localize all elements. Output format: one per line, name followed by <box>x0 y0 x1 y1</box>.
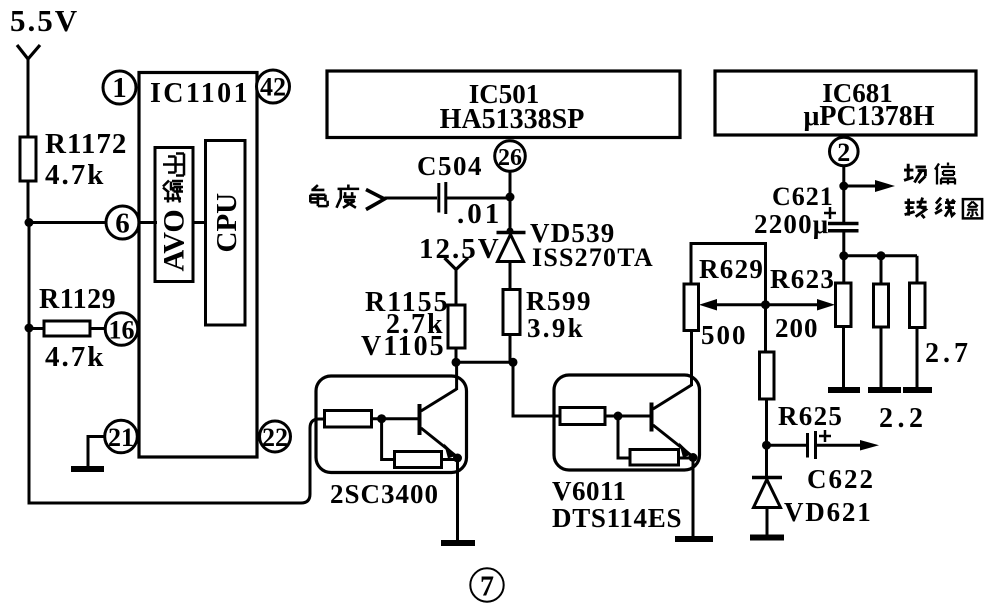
wire arrow to deflection coil <box>844 185 878 188</box>
ground pin21 <box>71 466 104 472</box>
svg-text:5.5V: 5.5V <box>10 3 79 38</box>
wire R599 down <box>509 335 512 363</box>
svg-text:C504: C504 <box>417 151 483 181</box>
resistor R625 <box>760 352 775 399</box>
resistor R1155 <box>448 305 465 348</box>
svg-text:4.7k: 4.7k <box>45 159 105 191</box>
arrowhead wiper R623 <box>817 299 835 311</box>
arrowhead deflection <box>875 180 895 192</box>
svg-text:HA51338SP: HA51338SP <box>440 104 585 135</box>
wire pin6 to AVO box <box>139 221 157 224</box>
svg-text:26: 26 <box>498 145 522 171</box>
node junction R623 top <box>839 251 848 260</box>
wire AVO box to CPU box <box>194 221 207 224</box>
svg-text:IC1101: IC1101 <box>150 78 250 109</box>
wire 2.7 top <box>916 256 919 283</box>
wire R1129 to pin16 <box>90 327 106 330</box>
wire rail down to R1129 junction <box>28 223 31 329</box>
svg-text:DTS114ES: DTS114ES <box>552 503 682 533</box>
wire Q2 resistor to base <box>605 415 650 418</box>
wire R625 down <box>765 399 768 478</box>
wire C621 down <box>842 231 845 256</box>
wire pin6 horizontal <box>29 221 106 224</box>
svg-text:2200μ: 2200μ <box>754 209 829 239</box>
pin 21 circle <box>105 420 138 453</box>
wire bottom run to transistor input <box>28 419 326 503</box>
arrowhead C622 <box>860 440 879 451</box>
node Q1 emitter junction <box>453 454 462 463</box>
svg-text:7: 7 <box>480 572 494 603</box>
svg-text:2: 2 <box>837 138 850 167</box>
svg-text:12.5V: 12.5V <box>419 233 501 265</box>
ground 2.7 <box>903 387 932 393</box>
polarity plus C621 <box>824 207 836 219</box>
wire junction bar R1155 R599 <box>456 361 513 364</box>
IC681 box <box>715 71 976 135</box>
resistor R599 <box>503 290 520 335</box>
wire C504 to junction <box>446 197 512 200</box>
wire to V6011 input <box>513 362 561 416</box>
node Q1 base junction <box>377 414 386 423</box>
svg-text:R623: R623 <box>770 264 835 294</box>
ground 2.2 <box>868 387 901 393</box>
wire Q2 collector up to R629 <box>690 330 693 386</box>
transistor Q1 symbol <box>420 389 457 459</box>
resistor R1172 <box>20 137 36 181</box>
svg-text:R629: R629 <box>699 254 764 284</box>
wire 12.5V to R1155 <box>455 269 458 305</box>
svg-text:R625: R625 <box>778 401 843 431</box>
pin 22 circle <box>260 421 291 452</box>
pin 2 circle <box>830 137 859 166</box>
wire Q1 emitter to ground <box>456 458 459 542</box>
IC501 box <box>327 71 680 138</box>
label changpian (field deflection) <box>904 163 955 185</box>
wire Q1 collector up <box>455 362 458 390</box>
svg-text:1: 1 <box>112 72 127 104</box>
resistor base input Q1 <box>325 411 372 428</box>
node junction 2.2 top <box>877 251 886 260</box>
node junction C504 pin26 <box>506 193 515 202</box>
resistor 2.7 <box>910 283 926 328</box>
wire 2.7 bottom <box>916 328 919 390</box>
wire Q1 BE resistor to emitter <box>442 458 459 461</box>
capacitor C621 <box>828 224 859 231</box>
power arrow 12.5V <box>445 258 469 270</box>
svg-text:2.2: 2.2 <box>879 403 928 434</box>
resistor base-emitter Q2 <box>630 450 679 466</box>
arrowhead wiper R629 <box>699 299 717 311</box>
wire sedu to C504 <box>385 197 438 200</box>
svg-text:22: 22 <box>262 423 288 452</box>
resistor R629 <box>684 284 699 331</box>
svg-text:ISS270TA: ISS270TA <box>532 243 654 272</box>
label AVO shuchu rotated <box>158 154 191 272</box>
capacitor C622 <box>808 431 816 459</box>
svg-text:C622: C622 <box>807 464 875 494</box>
label CPU rotated <box>211 193 243 253</box>
svg-text:200: 200 <box>775 313 819 343</box>
resistor R623 <box>836 283 852 327</box>
page number circle 7 <box>470 568 503 601</box>
wire 2.2 bottom <box>880 327 883 389</box>
wire junction down to VD539 <box>509 197 512 233</box>
node junction deflection <box>839 182 848 191</box>
svg-text:2SC3400: 2SC3400 <box>330 479 439 509</box>
wire pin26 down <box>509 171 512 198</box>
wire rail down to bottom <box>28 328 31 505</box>
power arrow 5.5V <box>17 45 40 59</box>
transistor Q2 symbol <box>652 385 693 458</box>
ground VD621 <box>750 535 784 541</box>
wire Q1 junction down to BE resistor <box>382 419 395 460</box>
svg-text:R1129: R1129 <box>39 284 116 315</box>
wire R1155 down <box>455 348 458 362</box>
wire wiper node down to R625 <box>764 305 767 352</box>
svg-text:6: 6 <box>115 208 130 240</box>
resistor 2.2 <box>874 284 889 327</box>
wire junction to C622 <box>767 444 807 447</box>
pin 1 circle <box>103 71 136 104</box>
wire R1129 left <box>29 327 45 330</box>
wire wiper R623 <box>766 303 827 306</box>
wire pin21 to ground <box>88 437 105 468</box>
wire C622 arrow <box>816 444 862 447</box>
wire VD621 to ground <box>766 508 769 537</box>
wire 5.5V rail down to R1172 <box>27 58 30 137</box>
svg-text:21: 21 <box>108 423 134 452</box>
pin 42 circle <box>257 70 290 103</box>
wire R623 bottom <box>842 327 845 390</box>
label sedu (chrominance) <box>310 185 359 208</box>
node junction wiper <box>761 300 770 309</box>
svg-text:500: 500 <box>701 320 748 350</box>
svg-text:μPC1378H: μPC1378H <box>804 101 935 132</box>
resistor base input Q2 <box>560 408 605 425</box>
pin 16 circle <box>105 313 138 346</box>
node junction C622 VD621 <box>762 441 771 450</box>
svg-text:R1172: R1172 <box>45 128 127 160</box>
svg-text:AVO: AVO <box>158 209 191 271</box>
wire Q1 resistor to base <box>372 417 419 420</box>
svg-text:42: 42 <box>260 73 286 102</box>
wire rail R1172 to junction <box>27 181 30 223</box>
node junction rail R1129 <box>25 324 34 333</box>
svg-text:3.9k: 3.9k <box>527 313 585 343</box>
node Q2 emitter junction <box>689 453 698 462</box>
svg-text:R599: R599 <box>526 286 592 316</box>
input chevron <box>366 190 385 210</box>
IC1101 box <box>139 73 257 458</box>
pin 6 circle <box>106 206 139 239</box>
svg-text:CPU: CPU <box>211 193 243 253</box>
transistor Q1 2SC3400 package <box>316 376 467 473</box>
ground Q1 <box>441 540 475 546</box>
node Q2 base junction <box>614 412 623 421</box>
node junction left <box>452 358 461 367</box>
block AVO output box <box>155 148 193 282</box>
wire Q2 junction down to BE resistor <box>618 416 630 458</box>
wire Q2 emitter to ground <box>692 458 695 539</box>
node junction right <box>509 358 518 367</box>
wire VD539 to R599 <box>509 262 512 291</box>
svg-text:V6011: V6011 <box>552 476 627 506</box>
capacitor C504 <box>439 182 446 214</box>
wire pin2 down <box>842 166 845 225</box>
svg-text:4.7k: 4.7k <box>45 341 105 373</box>
wire across resistor tops <box>844 254 917 257</box>
svg-text:V1105: V1105 <box>361 331 446 362</box>
wire wiper R629 <box>706 303 766 306</box>
polarity plus C622 <box>819 430 831 442</box>
block CPU box <box>206 141 246 326</box>
label zhuanxianquan (deflection coil) <box>905 198 983 219</box>
wire 2.2 top <box>880 256 883 284</box>
resistor base-emitter Q1 <box>395 452 442 468</box>
diode VD539 <box>497 228 526 262</box>
wire Q2 BE resistor to emitter <box>679 457 694 460</box>
svg-text:2.7: 2.7 <box>925 338 972 369</box>
svg-text:16: 16 <box>109 316 135 345</box>
diode VD621 <box>752 478 782 508</box>
ground Q2 <box>675 536 713 542</box>
pin 26 circle <box>495 141 526 172</box>
node junction rail pin6 <box>25 218 34 227</box>
svg-text:VD621: VD621 <box>784 497 873 527</box>
wire R629 top loop <box>691 244 766 306</box>
svg-text:C621: C621 <box>772 182 834 211</box>
wire R623 top <box>842 256 845 283</box>
ground R623 <box>828 387 860 393</box>
svg-text:.01: .01 <box>457 198 502 230</box>
transistor Q2 V6011 package <box>554 375 700 470</box>
resistor R1129 <box>44 321 90 336</box>
